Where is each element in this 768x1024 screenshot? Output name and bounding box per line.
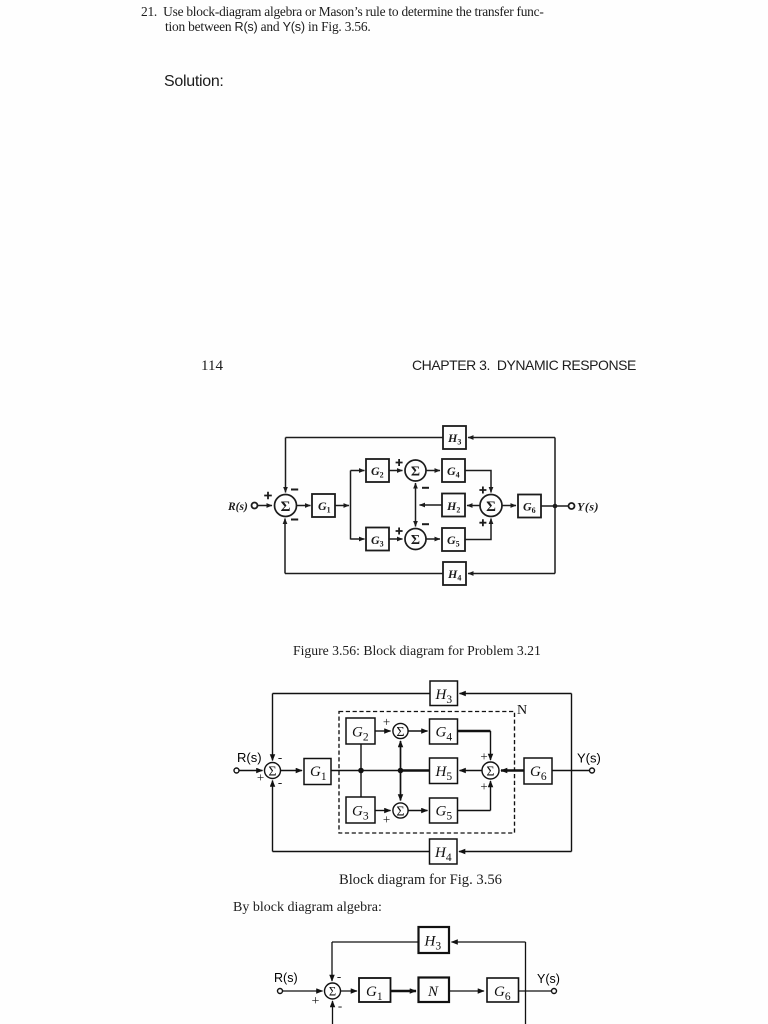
svg-text:G6: G6 <box>530 764 547 783</box>
sign plus at S3 input <box>396 528 403 535</box>
svg-text:Σ: Σ <box>396 725 404 740</box>
svg-text:N: N <box>427 984 439 1000</box>
svg-text:G2: G2 <box>371 464 384 480</box>
wire S1 to G1 <box>297 505 311 507</box>
wire S2 to G4 <box>426 470 440 472</box>
wire top feedback left segment <box>273 693 431 695</box>
node R(s) input terminal <box>278 989 283 994</box>
wire S4 to H2 input <box>467 505 480 507</box>
wire feedback trunk vertical <box>525 942 527 1024</box>
wire T3 to G5 <box>409 810 428 812</box>
wire G6 to Y(s) terminal <box>519 990 552 992</box>
wire G4 to T4 <box>458 730 491 732</box>
svg-text:G1: G1 <box>318 499 331 515</box>
wire G3 to summer S3 <box>389 538 403 540</box>
wire H4 up into S1 <box>284 519 286 574</box>
node Y(s) output terminal <box>569 503 575 509</box>
svg-text:H4: H4 <box>447 567 461 583</box>
wire G6 right to Y(s) terminal <box>552 770 590 772</box>
summing junction T2 <box>393 723 408 738</box>
block G3 <box>366 528 389 551</box>
sign minus at S1 top <box>291 489 298 491</box>
svg-text:Σ: Σ <box>281 499 291 515</box>
wire middle vertical up to T2 <box>400 741 402 771</box>
svg-text:G4: G4 <box>447 464 460 480</box>
svg-text:H3: H3 <box>424 934 442 953</box>
svg-text:R(s): R(s) <box>274 971 298 985</box>
svg-text:-: - <box>278 750 282 765</box>
by block diagram algebra text <box>233 900 382 916</box>
block G1 <box>359 978 391 1002</box>
wire middle vertical down to T3 <box>400 771 402 801</box>
svg-text:Σ: Σ <box>486 499 496 515</box>
wire G1 to branch point <box>335 505 349 507</box>
wire H4 up into T1 <box>272 781 274 852</box>
block G6 <box>518 495 541 518</box>
block G6 <box>524 758 552 784</box>
wire top feedback right segment to H3 <box>452 941 526 943</box>
wire N to G6 <box>449 990 484 992</box>
wire U1 to G1 <box>341 990 358 992</box>
wire top feedback right segment to H3 <box>460 693 572 695</box>
block G4 <box>442 459 465 482</box>
wire G4 to S4 <box>465 471 491 493</box>
node R(s) input terminal <box>252 503 258 509</box>
block G2 <box>366 459 389 482</box>
wire T4 to H5 input <box>460 770 483 772</box>
wire branch vertical <box>350 471 352 540</box>
sign minus at S2 bottom <box>422 487 429 489</box>
summing junction T3 <box>393 803 408 818</box>
svg-text:Y(s): Y(s) <box>577 500 599 514</box>
wire bottom vertical into U1 from below <box>332 1001 334 1024</box>
wire G6 to T4 <box>501 769 524 771</box>
svg-text:Σ: Σ <box>268 765 276 780</box>
wire top feedback left segment <box>286 437 444 439</box>
svg-text:Y(s): Y(s) <box>577 751 601 766</box>
block N <box>419 978 450 1003</box>
chapter running head <box>412 357 636 373</box>
block G5 <box>442 528 465 551</box>
problem statement line 2 <box>165 19 371 35</box>
page number 114 <box>201 358 223 375</box>
block G1 <box>312 494 335 517</box>
summing junction T1 <box>265 763 281 779</box>
wire top feedback left segment <box>332 941 419 943</box>
node Y(s) output terminal <box>552 989 557 994</box>
sign plus at S1 input <box>264 492 272 500</box>
Solution heading <box>164 73 224 91</box>
wire G2 to summer T2 <box>375 730 391 732</box>
sign plus at S4 bottom <box>479 519 486 526</box>
wire R(s) to summer T1 <box>239 770 263 772</box>
svg-text:G6: G6 <box>523 500 536 516</box>
svg-text:H5: H5 <box>435 764 453 783</box>
svg-text:G5: G5 <box>447 533 460 549</box>
block G1 <box>304 759 331 785</box>
svg-text:Σ: Σ <box>486 765 494 780</box>
svg-text:H2: H2 <box>446 499 460 515</box>
wire R(s) to summer U1 <box>283 990 323 992</box>
summing junction S1 <box>275 495 297 517</box>
svg-text:N: N <box>517 703 527 718</box>
svg-text:R(s): R(s) <box>227 501 248 513</box>
sign plus at S4 top <box>479 487 486 494</box>
wire G1 to H5 junction line <box>331 770 401 772</box>
node output junction <box>553 504 558 509</box>
block H3 <box>419 927 450 953</box>
wire G5 to T4 <box>458 810 491 812</box>
svg-text:+: + <box>257 770 264 785</box>
wire feedback trunk vertical <box>571 694 573 852</box>
wire middle vertical to S3 <box>415 505 417 527</box>
svg-text:Σ: Σ <box>396 805 404 820</box>
svg-text:Σ: Σ <box>329 985 336 999</box>
node R(s) input terminal <box>234 768 239 773</box>
block G3 <box>346 797 375 823</box>
svg-text:G4: G4 <box>436 725 453 744</box>
summing junction T4 <box>482 762 499 779</box>
wire bottom feedback left segment <box>273 851 430 853</box>
node branch dot after G1 <box>358 768 364 774</box>
svg-text:-: - <box>337 969 341 984</box>
wire G5 corner up into T4 <box>490 781 492 811</box>
svg-text:Σ: Σ <box>411 533 420 548</box>
problem statement line 1 <box>141 4 544 20</box>
svg-text:G3: G3 <box>371 533 384 549</box>
wire R(s) to summer S1 <box>258 505 273 507</box>
svg-text:G2: G2 <box>352 725 369 744</box>
wire T2 to G4 <box>409 730 428 732</box>
svg-text:G6: G6 <box>494 984 511 1003</box>
node H5 branch dot <box>398 768 404 774</box>
wire G5 to S4 <box>465 519 491 540</box>
node Y(s) output terminal <box>590 768 595 773</box>
wire bottom feedback left segment <box>285 573 443 575</box>
wire branch to G3 <box>351 538 365 540</box>
wire T1 to G1 <box>281 770 303 772</box>
wire S4 to G6 <box>502 505 516 507</box>
wire branch to G2 and G3 vertical <box>360 744 362 797</box>
figure caption 2 <box>339 872 502 889</box>
wire H3 down into U1 <box>331 942 333 981</box>
wire H2 output to middle node <box>420 504 443 506</box>
sign minus at S1 bottom <box>291 519 298 521</box>
wire G6 to output <box>541 505 568 507</box>
wire H3 down into S1 <box>285 438 287 493</box>
block H5 <box>430 758 458 784</box>
svg-text:H3: H3 <box>435 687 453 706</box>
svg-text:G1: G1 <box>310 764 327 783</box>
wire feedback trunk vertical <box>554 438 556 574</box>
svg-text:+: + <box>312 994 320 1009</box>
svg-text:Σ: Σ <box>411 465 420 480</box>
svg-text:+: + <box>383 714 390 729</box>
svg-text:R(s): R(s) <box>237 750 262 765</box>
wire S3 to G5 <box>426 538 440 540</box>
wire bottom feedback right segment to H4 <box>459 851 572 853</box>
block H4 <box>430 839 458 864</box>
wire middle vertical to S2 <box>415 483 417 505</box>
svg-text:+: + <box>480 749 487 764</box>
block H3 <box>430 681 458 706</box>
wire G3 to summer T3 <box>375 810 391 812</box>
wire G2 to summer S2 <box>389 470 403 472</box>
svg-text:G3: G3 <box>352 804 369 823</box>
svg-text:+: + <box>480 779 487 794</box>
summing junction S2 <box>405 460 426 481</box>
svg-text:G5: G5 <box>436 804 453 823</box>
block G6 <box>487 978 519 1002</box>
wire G1 to N thick <box>391 990 417 993</box>
svg-text:Y(s): Y(s) <box>537 972 560 986</box>
wire H3 down into T1 <box>272 694 274 761</box>
sign plus at S2 input <box>396 459 403 466</box>
summing junction S3 <box>405 529 426 550</box>
wire G4 corner down into T4 <box>490 731 492 760</box>
summing junction S4 <box>480 495 502 517</box>
svg-text:H4: H4 <box>434 845 452 864</box>
block G2 <box>346 718 375 744</box>
block H4 <box>443 562 466 585</box>
wire H5 output thick segment <box>400 769 430 772</box>
wire bottom feedback right segment to H4 <box>468 573 555 575</box>
figure caption 1 <box>293 643 541 659</box>
svg-text:+: + <box>383 812 390 827</box>
block H2 <box>442 494 465 517</box>
svg-text:-: - <box>338 998 342 1013</box>
sign minus at S3 top <box>422 523 429 525</box>
wire top feedback right segment to H3 <box>468 437 555 439</box>
block G5 <box>430 798 458 823</box>
block H3 <box>443 426 466 449</box>
svg-text:G1: G1 <box>366 984 383 1003</box>
wire branch to G2 <box>351 470 365 472</box>
summing junction U1 <box>325 983 341 999</box>
svg-text:-: - <box>278 775 282 790</box>
dashed box N <box>339 712 515 834</box>
block G4 <box>430 719 458 744</box>
svg-text:H3: H3 <box>447 431 461 447</box>
